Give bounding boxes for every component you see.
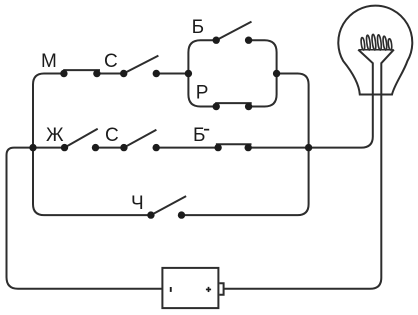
- svg-text:М: М: [41, 51, 57, 72]
- svg-text:Ж: Ж: [46, 125, 64, 146]
- svg-text:С: С: [105, 125, 119, 146]
- svg-text:Ч: Ч: [131, 193, 144, 214]
- svg-text:С: С: [104, 51, 118, 72]
- svg-text:Р: Р: [196, 82, 209, 103]
- svg-text:Б: Б: [193, 125, 205, 146]
- svg-text:Б: Б: [192, 17, 204, 38]
